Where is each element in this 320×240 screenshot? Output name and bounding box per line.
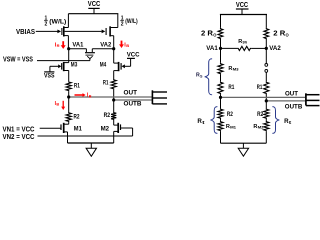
svg-text:R1: R1 [74, 84, 81, 90]
svg-text:VN2 = VCC: VN2 = VCC [3, 134, 35, 141]
svg-text:M3: M3 [233, 67, 240, 72]
svg-text:B: B [56, 103, 59, 107]
svg-text:2 R: 2 R [273, 31, 285, 38]
svg-text:VA2: VA2 [100, 42, 111, 49]
svg-text:VA1: VA1 [206, 45, 218, 52]
svg-text:(W/L): (W/L) [125, 18, 138, 25]
svg-text:VA1: VA1 [72, 42, 83, 49]
svg-text:VSS: VSS [44, 74, 55, 80]
svg-text:R2: R2 [74, 115, 81, 121]
svg-text:B: B [89, 95, 92, 99]
svg-text:M1: M1 [74, 126, 83, 133]
svg-text:2 R: 2 R [201, 31, 213, 38]
svg-text:VA2: VA2 [269, 45, 281, 52]
svg-text:OUT: OUT [285, 90, 298, 97]
svg-text:VCC: VCC [127, 52, 140, 59]
svg-text:M1: M1 [230, 125, 237, 130]
svg-text:M4: M4 [100, 62, 107, 68]
svg-text:R2: R2 [227, 112, 234, 118]
svg-text:B: B [126, 43, 129, 48]
svg-text:2: 2 [45, 22, 48, 28]
svg-text:(W/L): (W/L) [49, 18, 66, 25]
svg-text:R1: R1 [257, 85, 263, 91]
svg-text:VSW = VSS: VSW = VSS [3, 56, 33, 63]
svg-text:R: R [57, 43, 60, 48]
svg-text:R1: R1 [228, 85, 235, 91]
svg-text:VCC: VCC [88, 1, 101, 8]
svg-text:R2: R2 [257, 112, 264, 118]
svg-text:M2: M2 [101, 126, 110, 133]
svg-text:M3: M3 [71, 62, 78, 68]
svg-text:OUTB: OUTB [124, 101, 142, 108]
svg-text:2: 2 [121, 22, 124, 28]
svg-text:SW: SW [243, 40, 248, 45]
svg-text:M2: M2 [258, 125, 265, 130]
svg-text:OUTB: OUTB [285, 103, 303, 110]
svg-text:VBIAS: VBIAS [16, 29, 35, 36]
svg-text:O: O [213, 32, 217, 37]
svg-text:VCC: VCC [236, 2, 248, 9]
svg-text:R1: R1 [103, 80, 109, 86]
svg-text:O: O [286, 32, 290, 37]
svg-text:VN1 = VCC: VN1 = VCC [3, 126, 35, 133]
svg-text:R2: R2 [104, 113, 111, 119]
svg-text:OUT: OUT [124, 90, 138, 97]
